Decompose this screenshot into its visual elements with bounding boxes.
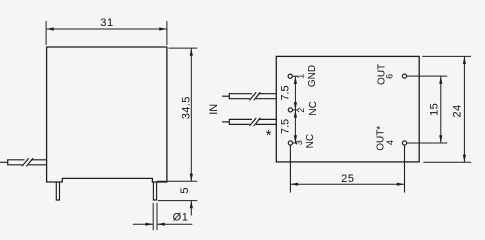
- svg-text:Ø1: Ø1: [173, 212, 189, 224]
- svg-text:24: 24: [452, 104, 464, 117]
- svg-text:GND: GND: [307, 65, 318, 87]
- pin 2: [288, 108, 292, 112]
- svg-text:NC: NC: [305, 134, 316, 148]
- svg-text:25: 25: [341, 173, 354, 185]
- svg-text:NC: NC: [308, 101, 319, 115]
- pin 3 extension lead: [289, 145, 291, 192]
- pin 4: [402, 141, 406, 145]
- dimension 15: [407, 76, 448, 143]
- svg-text:15: 15: [429, 103, 441, 116]
- lead wire tip (side view): [0, 161, 8, 163]
- svg-text:*: *: [266, 128, 272, 144]
- svg-text:OUT*: OUT*: [376, 126, 387, 151]
- svg-text:IN: IN: [208, 104, 220, 115]
- pin 6: [402, 74, 406, 78]
- input lead upper (bottom view): [222, 92, 276, 100]
- svg-text:7.5: 7.5: [279, 119, 291, 134]
- pin 1: [288, 74, 292, 78]
- pin 4 extension lead: [404, 145, 406, 192]
- dimension 31: [46, 21, 167, 45]
- dimension 24: [422, 56, 471, 162]
- pin 3: [288, 141, 292, 145]
- svg-text:2: 2: [296, 108, 306, 113]
- transformer case bottom view: [276, 56, 419, 161]
- dimension 7.5 / 7.5 bracket: [292, 76, 297, 143]
- svg-text:5: 5: [179, 188, 191, 194]
- transformer case side view: [47, 47, 167, 182]
- pin right (side view): [153, 182, 156, 200]
- svg-text:OUT: OUT: [376, 64, 387, 85]
- svg-text:31: 31: [100, 17, 113, 29]
- input lead lower (bottom view): [222, 118, 276, 126]
- dimension 25: [290, 183, 404, 185]
- svg-text:34.5: 34.5: [180, 96, 192, 119]
- dimension 34.5: [157, 48, 197, 181]
- dimension 5: [158, 201, 197, 216]
- dimension dia 1: [133, 203, 193, 230]
- pin left (side view): [56, 182, 59, 200]
- svg-text:7.5: 7.5: [279, 85, 291, 100]
- insulated lead cable (side view): [8, 158, 47, 166]
